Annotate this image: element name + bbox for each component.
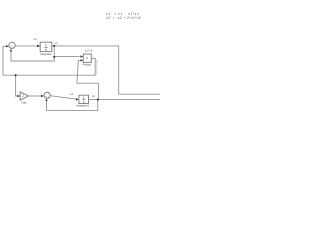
svg-text:x2': x2' <box>70 92 75 96</box>
svg-text:x1: x1 <box>54 41 58 45</box>
svg-text:x1*x2: x1*x2 <box>85 48 93 52</box>
svg-text:Gain: Gain <box>21 101 27 105</box>
svg-text:x1': x1' <box>33 37 38 41</box>
svg-text:x2: x2 <box>92 94 96 98</box>
svg-text:Product: Product <box>83 63 92 67</box>
svg-text:2: 2 <box>22 94 24 98</box>
svg-text:x2' = -x2 + 2*x1*x2: x2' = -x2 + 2*x1*x2 <box>106 16 141 20</box>
svg-text:Integrator1: Integrator1 <box>76 104 89 108</box>
svg-text:Integrator: Integrator <box>40 52 52 56</box>
